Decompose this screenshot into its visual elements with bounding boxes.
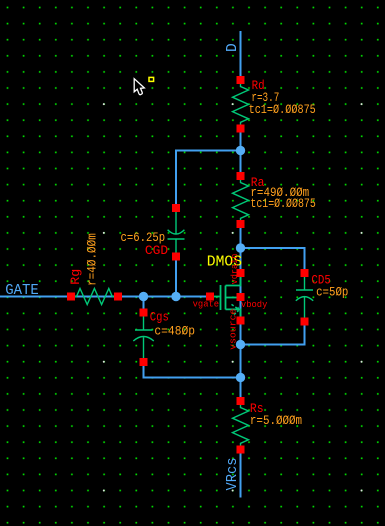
pin Ra bottom: [237, 220, 245, 228]
svg-text:vgate: vgate: [193, 299, 220, 310]
wire Rd bottom to Ra top: [240, 133, 242, 173]
wire net D stub above Rd: [240, 31, 242, 76]
junction node source/Cgs: [236, 373, 245, 382]
svg-text:r=4Ø.ØØm: r=4Ø.ØØm: [85, 233, 100, 286]
svg-text:VRcs: VRcs: [225, 458, 241, 491]
wire gate net to Cgs top: [143, 297, 145, 309]
selection box marker: [149, 77, 154, 81]
pin Rs top: [237, 397, 245, 405]
svg-text:r=5.ØØØm: r=5.ØØØm: [250, 413, 302, 428]
svg-text:tc1=Ø.ØØ875: tc1=Ø.ØØ875: [250, 196, 315, 211]
pin Rg right: [114, 293, 122, 301]
pin Rg left: [67, 293, 75, 301]
svg-text:c=5Øp: c=5Øp: [316, 284, 348, 299]
resistor Rs body: [233, 405, 249, 446]
wire GATE to DMOS gate pin: [0, 296, 210, 298]
svg-text:c=48Øp: c=48Øp: [154, 324, 195, 339]
pin Ra top: [237, 172, 245, 180]
svg-text:GATE: GATE: [5, 283, 39, 299]
pin DMOS body: [237, 293, 245, 301]
wire Ra bottom through DMOS to Rs top: [240, 228, 242, 397]
pin Rd bottom: [237, 125, 245, 133]
transistor DMOS symbol: [210, 277, 241, 317]
resistor Rg body: [75, 289, 114, 305]
svg-text:CGD: CGD: [145, 243, 168, 258]
svg-text:Cgs: Cgs: [150, 309, 169, 324]
svg-text:Rg: Rg: [68, 269, 83, 285]
pin DMOS source: [237, 317, 245, 325]
capacitor Cgs body: [143, 317, 145, 331]
svg-text:vbody: vbody: [241, 299, 268, 310]
junction node drain/CD5: [236, 243, 245, 252]
junction node gate/Cgs: [139, 292, 148, 301]
svg-text:D: D: [225, 43, 241, 52]
pin CD5 bottom: [301, 318, 309, 326]
svg-text:vsource: vsource: [227, 308, 238, 350]
pin CGD bottom: [172, 253, 180, 261]
resistor Ra body: [233, 180, 249, 220]
pin Cgs top: [140, 309, 148, 317]
wire CD5 bottom to source node: [241, 326, 305, 345]
pin DMOS drain: [237, 269, 245, 277]
wire Rs bottom to VRcs end: [240, 454, 242, 498]
pin CD5 top: [301, 269, 309, 277]
pin Cgs bottom: [140, 358, 148, 366]
major grid dots: [103, 103, 363, 491]
junction node source/CD5: [236, 340, 245, 349]
svg-text:tc1=Ø.ØØ875: tc1=Ø.ØØ875: [249, 102, 316, 117]
junction node Rd/Ra/CGD: [236, 146, 245, 155]
svg-text:c=6.25p: c=6.25p: [121, 230, 166, 245]
wire drain node to CGD top: [176, 151, 241, 205]
capacitor CD5 body: [304, 277, 306, 290]
junction node gate/CGD: [171, 292, 180, 301]
mouse cursor: [134, 79, 144, 95]
wire CGD bottom to gate net: [175, 261, 177, 297]
wire drain node to CD5 top: [241, 248, 305, 269]
svg-text:vdrain: vdrain: [229, 254, 240, 285]
pin Rs bottom: [237, 446, 245, 454]
pin Rd top: [237, 76, 245, 84]
wire Cgs bottom to source node: [144, 366, 241, 378]
pin DMOS gate: [206, 293, 214, 301]
resistor Rd body: [233, 84, 249, 124]
pin CGD top: [172, 204, 180, 212]
capacitor CGD body: [175, 212, 177, 234]
